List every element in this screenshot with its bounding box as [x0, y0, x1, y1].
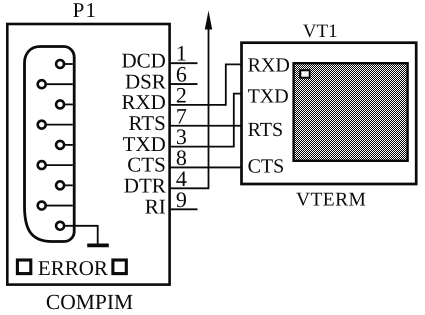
pin stub DSR pin 6 [170, 83, 198, 85]
svg-text:COMPIM: COMPIM [46, 290, 133, 314]
DB9 pin 9 tick [42, 205, 73, 207]
DB9 pin 4 tick [60, 184, 73, 186]
DB9 pin 5 shell pin wire to ground [60, 226, 98, 244]
DB9 connector outline [25, 47, 75, 242]
pin stub DCD pin 1 [170, 62, 198, 64]
ERROR LED square right [113, 260, 126, 274]
DB9 pin 3 tick [60, 144, 73, 146]
DB9 pin 5 circle [56, 222, 64, 230]
svg-text:RXD: RXD [248, 55, 290, 77]
svg-text:TXD: TXD [248, 86, 289, 108]
DB9 pin 7 tick [42, 124, 73, 126]
pin stub RI pin 9 [170, 208, 198, 210]
ground [87, 243, 109, 247]
DB9 pin 7 circle [38, 121, 46, 129]
terminal VT1 VTERM body box [242, 43, 417, 184]
VTERM cursor [299, 69, 310, 79]
DB9 pin 8 circle [38, 161, 46, 169]
svg-text:ERROR: ERROR [38, 256, 108, 280]
DB9 pin 1 tick [60, 63, 73, 65]
DB9 pin 6 circle [38, 80, 46, 88]
DB9 pin 3 circle [56, 141, 64, 149]
svg-text:CTS: CTS [248, 156, 285, 178]
svg-text:9: 9 [176, 187, 187, 212]
svg-text:RTS: RTS [248, 119, 283, 141]
svg-text:P1: P1 [73, 0, 98, 22]
DB9 pin 2 tick [60, 103, 73, 105]
wire TXD: COMPIM pin 3 to VTERM TXD [170, 94, 242, 147]
svg-text:VTERM: VTERM [296, 189, 366, 210]
wire RTS: COMPIM pin 7 to VTERM RTS [170, 125, 242, 127]
DB9 pin 1 circle [56, 60, 64, 68]
svg-text:VT1: VT1 [303, 21, 338, 42]
wire DTR: COMPIM pin 4 up to arrow terminal [170, 29, 209, 188]
VTERM screen [294, 63, 408, 161]
DB9 pin 8 tick [42, 164, 73, 166]
connector P1 COMPIM body box [7, 24, 169, 285]
DB9 pin 2 circle [56, 100, 64, 108]
DB9 pin 4 circle [56, 181, 64, 189]
ERROR LED square left [17, 260, 30, 274]
wire RXD: COMPIM pin 2 to VTERM RXD [170, 64, 242, 105]
arrow terminal head [205, 11, 212, 30]
svg-text:RI: RI [145, 195, 166, 219]
wire CTS: COMPIM pin 8 to VTERM CTS [170, 166, 242, 168]
DB9 pin 9 circle [38, 202, 46, 210]
DB9 pin 6 tick [42, 83, 73, 85]
